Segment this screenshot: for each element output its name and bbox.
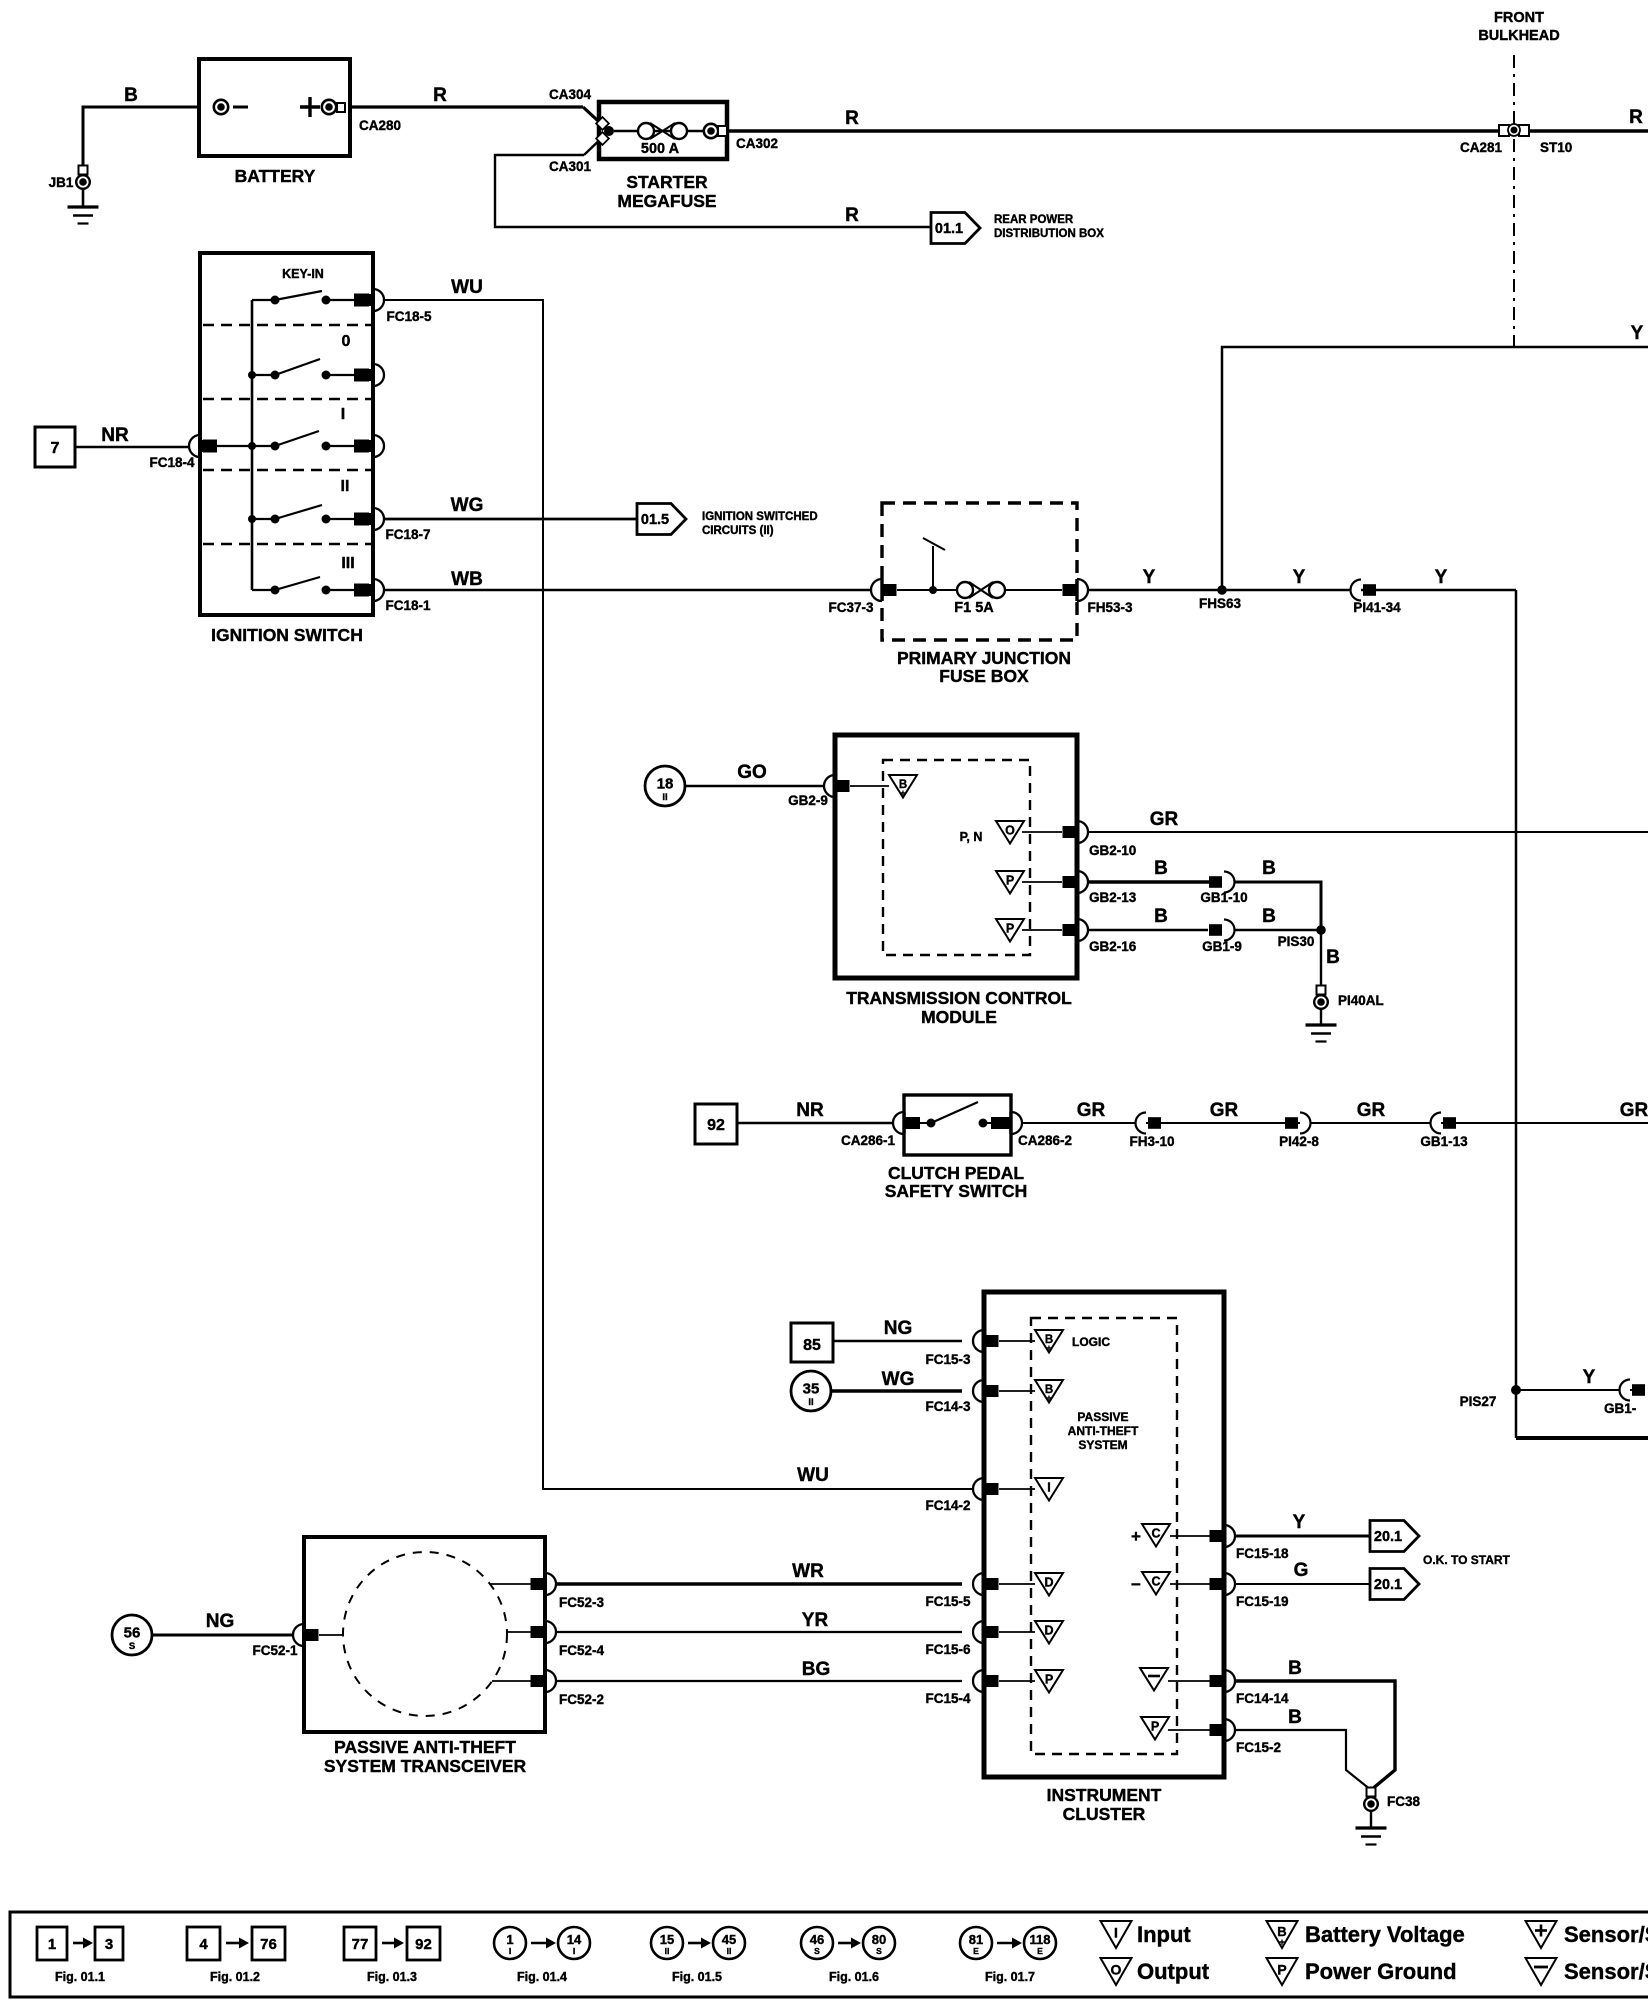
svg-text:SYSTEM: SYSTEM [1078,1438,1127,1452]
svg-text:O: O [1111,1962,1122,1978]
svg-text:P, N: P, N [960,830,983,844]
svg-text:KEY-IN: KEY-IN [282,267,324,281]
svg-text:GR: GR [1077,1100,1106,1121]
svg-text:14: 14 [567,1932,582,1947]
svg-text:GR: GR [1210,1100,1239,1121]
svg-text:P: P [1277,1962,1286,1978]
svg-text:LOGIC: LOGIC [1072,1335,1110,1349]
svg-text:REAR POWER: REAR POWER [994,214,1074,226]
svg-text:Battery Voltage: Battery Voltage [1305,1922,1465,1947]
svg-text:C: C [1151,1575,1160,1589]
svg-text:FRONT: FRONT [1494,10,1544,26]
svg-text:I: I [509,1946,511,1956]
svg-text:YR: YR [802,1610,829,1631]
svg-text:PIS30: PIS30 [1278,934,1315,949]
svg-text:Fig. 01.1: Fig. 01.1 [55,1970,105,1984]
svg-text:CA302: CA302 [736,136,778,151]
svg-text:O.K. TO START: O.K. TO START [1423,1553,1511,1567]
svg-text:FC15-6: FC15-6 [925,1642,971,1657]
svg-text:R: R [845,108,859,129]
svg-text:GR: GR [1150,809,1179,830]
svg-text:+: + [901,789,906,798]
svg-text:81: 81 [969,1932,983,1947]
svg-text:II: II [341,478,350,495]
svg-text:SAFETY SWITCH: SAFETY SWITCH [885,1181,1028,1201]
svg-text:ANTI-THEFT: ANTI-THEFT [1068,1424,1139,1438]
svg-text:WU: WU [451,277,483,298]
svg-text:Output: Output [1137,1959,1210,1984]
svg-text:II: II [665,1946,670,1956]
svg-text:STARTER: STARTER [626,172,708,192]
svg-text:56: 56 [124,1625,141,1642]
svg-text:SYSTEM TRANSCEIVER: SYSTEM TRANSCEIVER [324,1756,527,1776]
svg-text:P: P [1045,1673,1053,1687]
svg-text:GB1-: GB1- [1604,1401,1636,1416]
svg-text:PI41-34: PI41-34 [1353,600,1401,615]
svg-text:FHS63: FHS63 [1199,596,1242,611]
svg-text:Y: Y [1293,567,1306,588]
svg-text:PASSIVE: PASSIVE [1077,1410,1128,1424]
svg-text:B: B [1154,858,1168,879]
svg-text:R: R [845,205,859,226]
svg-text:PRIMARY JUNCTION: PRIMARY JUNCTION [897,648,1071,668]
svg-text:S: S [814,1946,820,1956]
svg-text:R: R [433,85,447,106]
svg-text:INSTRUMENT: INSTRUMENT [1047,1785,1162,1805]
svg-text:500 A: 500 A [641,141,680,157]
svg-text:CA304: CA304 [549,87,592,102]
svg-text:01.1: 01.1 [935,221,963,237]
svg-text:S: S [876,1946,882,1956]
svg-text:E: E [1037,1946,1043,1956]
svg-text:FC15-4: FC15-4 [925,1691,971,1706]
svg-text:I: I [341,406,345,423]
svg-text:BULKHEAD: BULKHEAD [1478,28,1559,44]
svg-text:Fig. 01.3: Fig. 01.3 [367,1970,417,1984]
svg-text:+: + [1047,1344,1052,1353]
svg-text:CA286-2: CA286-2 [1018,1133,1072,1148]
svg-text:77: 77 [352,1936,369,1953]
svg-text:P: P [1006,874,1014,888]
svg-text:Y: Y [1143,567,1156,588]
svg-text:IGNITION SWITCH: IGNITION SWITCH [211,625,363,645]
svg-text:B: B [1262,906,1276,927]
svg-text:CLUTCH PEDAL: CLUTCH PEDAL [888,1163,1024,1183]
svg-text:II: II [662,792,667,803]
svg-text:Fig. 01.4: Fig. 01.4 [517,1970,567,1984]
svg-text:NR: NR [796,1100,824,1121]
svg-text:WR: WR [792,1561,824,1582]
svg-text:FC15-18: FC15-18 [1236,1546,1289,1561]
svg-text:NG: NG [884,1318,913,1339]
svg-text:FC52-1: FC52-1 [252,1643,298,1658]
svg-text:II: II [808,1397,813,1408]
svg-text:GR: GR [1620,1100,1648,1121]
svg-text:CLUSTER: CLUSTER [1063,1804,1146,1824]
svg-text:Fig. 01.6: Fig. 01.6 [829,1970,879,1984]
svg-text:0: 0 [342,333,351,350]
svg-text:FUSE BOX: FUSE BOX [939,666,1029,686]
svg-text:Fig. 01.5: Fig. 01.5 [672,1970,722,1984]
svg-text:WG: WG [882,1369,915,1390]
svg-text:GO: GO [737,762,767,783]
svg-text:Sensor/Si: Sensor/Si [1564,1959,1648,1984]
svg-text:Sensor/Si: Sensor/Si [1564,1922,1648,1947]
svg-text:FC15-19: FC15-19 [1236,1594,1289,1609]
svg-text:Y: Y [1583,1367,1596,1388]
svg-text:B: B [1288,1658,1302,1679]
svg-text:CA286-1: CA286-1 [841,1133,896,1148]
svg-text:FC15-2: FC15-2 [1236,1740,1281,1755]
svg-text:MODULE: MODULE [921,1007,997,1027]
svg-text:FC18-7: FC18-7 [385,527,430,542]
svg-text:Input: Input [1137,1922,1191,1947]
svg-text:IGNITION SWITCHED: IGNITION SWITCHED [702,511,818,523]
svg-text:GB1-10: GB1-10 [1200,890,1247,905]
svg-text:+: + [1279,1937,1284,1947]
svg-text:45: 45 [722,1932,736,1947]
svg-text:WG: WG [451,495,484,516]
svg-text:Fig. 01.2: Fig. 01.2 [210,1970,260,1984]
svg-text:35: 35 [803,1381,820,1398]
svg-text:BG: BG [802,1659,831,1680]
svg-text:WU: WU [797,1465,829,1486]
svg-text:D: D [1044,1576,1053,1590]
svg-text:92: 92 [415,1936,432,1953]
svg-text:85: 85 [803,1337,821,1354]
svg-text:GB2-10: GB2-10 [1089,843,1136,858]
svg-text:R: R [1629,107,1643,128]
svg-text:D: D [1044,1624,1053,1638]
svg-text:20.1: 20.1 [1374,1577,1402,1593]
svg-text:II: II [727,1946,732,1956]
svg-text:FC52-3: FC52-3 [559,1595,605,1610]
svg-text:B: B [1154,906,1168,927]
svg-text:Power Ground: Power Ground [1305,1959,1457,1984]
svg-text:III: III [341,555,354,572]
svg-text:15: 15 [660,1932,674,1947]
svg-text:Y: Y [1631,323,1644,344]
svg-text:76: 76 [260,1936,277,1953]
svg-text:PI42-8: PI42-8 [1279,1134,1319,1149]
svg-text:−: − [1131,1575,1141,1594]
svg-text:B: B [1288,1707,1302,1728]
svg-text:FC18-1: FC18-1 [385,598,431,613]
svg-text:I: I [1114,1925,1118,1941]
svg-text:PIS27: PIS27 [1460,1394,1497,1409]
svg-text:GB2-9: GB2-9 [788,793,828,808]
svg-text:C: C [1151,1527,1160,1541]
svg-text:+: + [1131,1527,1141,1546]
svg-text:1: 1 [48,1936,56,1953]
svg-text:Y: Y [1293,1512,1306,1533]
svg-text:B: B [1262,858,1276,879]
svg-text:NR: NR [101,425,129,446]
svg-text:DISTRIBUTION BOX: DISTRIBUTION BOX [994,228,1104,240]
svg-text:I: I [573,1946,575,1956]
svg-text:TRANSMISSION CONTROL: TRANSMISSION CONTROL [846,988,1072,1008]
svg-text:E: E [973,1946,979,1956]
svg-text:B: B [124,85,138,106]
svg-text:FH3-10: FH3-10 [1129,1134,1174,1149]
svg-text:FC14-2: FC14-2 [925,1498,970,1513]
svg-text:WB: WB [451,569,483,590]
svg-text:NG: NG [206,1611,235,1632]
svg-text:S: S [129,1641,135,1652]
svg-text:7: 7 [51,440,60,457]
svg-text:GB1-9: GB1-9 [1202,939,1242,954]
svg-text:CA280: CA280 [359,118,401,133]
svg-text:18: 18 [657,776,674,793]
svg-text:80: 80 [872,1932,886,1947]
svg-text:JB1: JB1 [49,175,74,190]
svg-text:92: 92 [707,1117,725,1134]
svg-text:FC15-3: FC15-3 [925,1352,971,1367]
svg-text:I: I [1047,1481,1050,1495]
svg-text:1: 1 [506,1932,513,1947]
svg-text:B: B [1326,947,1340,968]
svg-text:FC14-14: FC14-14 [1236,1691,1289,1706]
svg-text:P: P [1151,1720,1159,1734]
svg-text:FH53-3: FH53-3 [1087,600,1133,615]
svg-text:20.1: 20.1 [1374,1529,1402,1545]
svg-text:CA281: CA281 [1460,140,1503,155]
svg-text:4: 4 [199,1936,208,1953]
svg-text:Y: Y [1435,567,1448,588]
svg-text:MEGAFUSE: MEGAFUSE [617,191,716,211]
svg-text:PASSIVE ANTI-THEFT: PASSIVE ANTI-THEFT [334,1737,516,1757]
svg-text:FC18-4: FC18-4 [149,455,195,470]
svg-text:GB2-13: GB2-13 [1089,890,1137,905]
svg-text:GR: GR [1357,1100,1386,1121]
svg-text:FC18-5: FC18-5 [386,309,432,324]
svg-text:46: 46 [810,1932,824,1947]
svg-text:01.5: 01.5 [641,512,669,528]
svg-text:FC38: FC38 [1387,1794,1421,1809]
svg-text:Fig. 01.7: Fig. 01.7 [985,1970,1035,1984]
svg-text:FC52-4: FC52-4 [559,1643,605,1658]
svg-text:G: G [1294,1560,1309,1581]
svg-text:FC15-5: FC15-5 [925,1594,971,1609]
svg-text:BATTERY: BATTERY [235,166,316,186]
svg-text:ST10: ST10 [1540,140,1572,155]
svg-text:O: O [1005,824,1015,838]
svg-text:PI40AL: PI40AL [1338,993,1384,1008]
svg-text:3: 3 [105,1936,113,1953]
svg-text:+: + [1047,1394,1052,1403]
svg-text:FC37-3: FC37-3 [828,600,874,615]
svg-text:F1 5A: F1 5A [954,600,994,616]
svg-text:GB1-13: GB1-13 [1420,1134,1468,1149]
svg-text:CA301: CA301 [549,159,592,174]
svg-text:FC52-2: FC52-2 [559,1692,604,1707]
svg-text:118: 118 [1030,1932,1051,1947]
svg-text:FC14-3: FC14-3 [925,1399,971,1414]
svg-text:CIRCUITS (II): CIRCUITS (II) [702,525,774,537]
svg-text:P: P [1006,922,1014,936]
svg-text:GB2-16: GB2-16 [1089,939,1137,954]
